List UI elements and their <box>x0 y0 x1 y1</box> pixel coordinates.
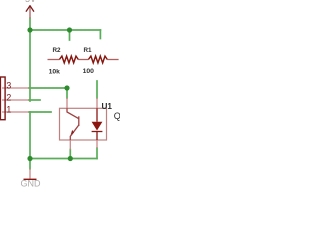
svg-text:1: 1 <box>6 104 11 114</box>
svg-text:U1: U1 <box>102 102 113 111</box>
svg-text:3: 3 <box>6 80 11 90</box>
svg-text:100: 100 <box>83 68 95 75</box>
svg-text:GND: GND <box>21 178 42 188</box>
svg-text:2: 2 <box>6 92 11 102</box>
svg-text:R1: R1 <box>83 47 92 54</box>
svg-text:R2: R2 <box>52 47 61 54</box>
svg-text:Q: Q <box>114 111 120 121</box>
svg-text:10k: 10k <box>49 69 61 76</box>
svg-text:5V: 5V <box>25 0 36 4</box>
